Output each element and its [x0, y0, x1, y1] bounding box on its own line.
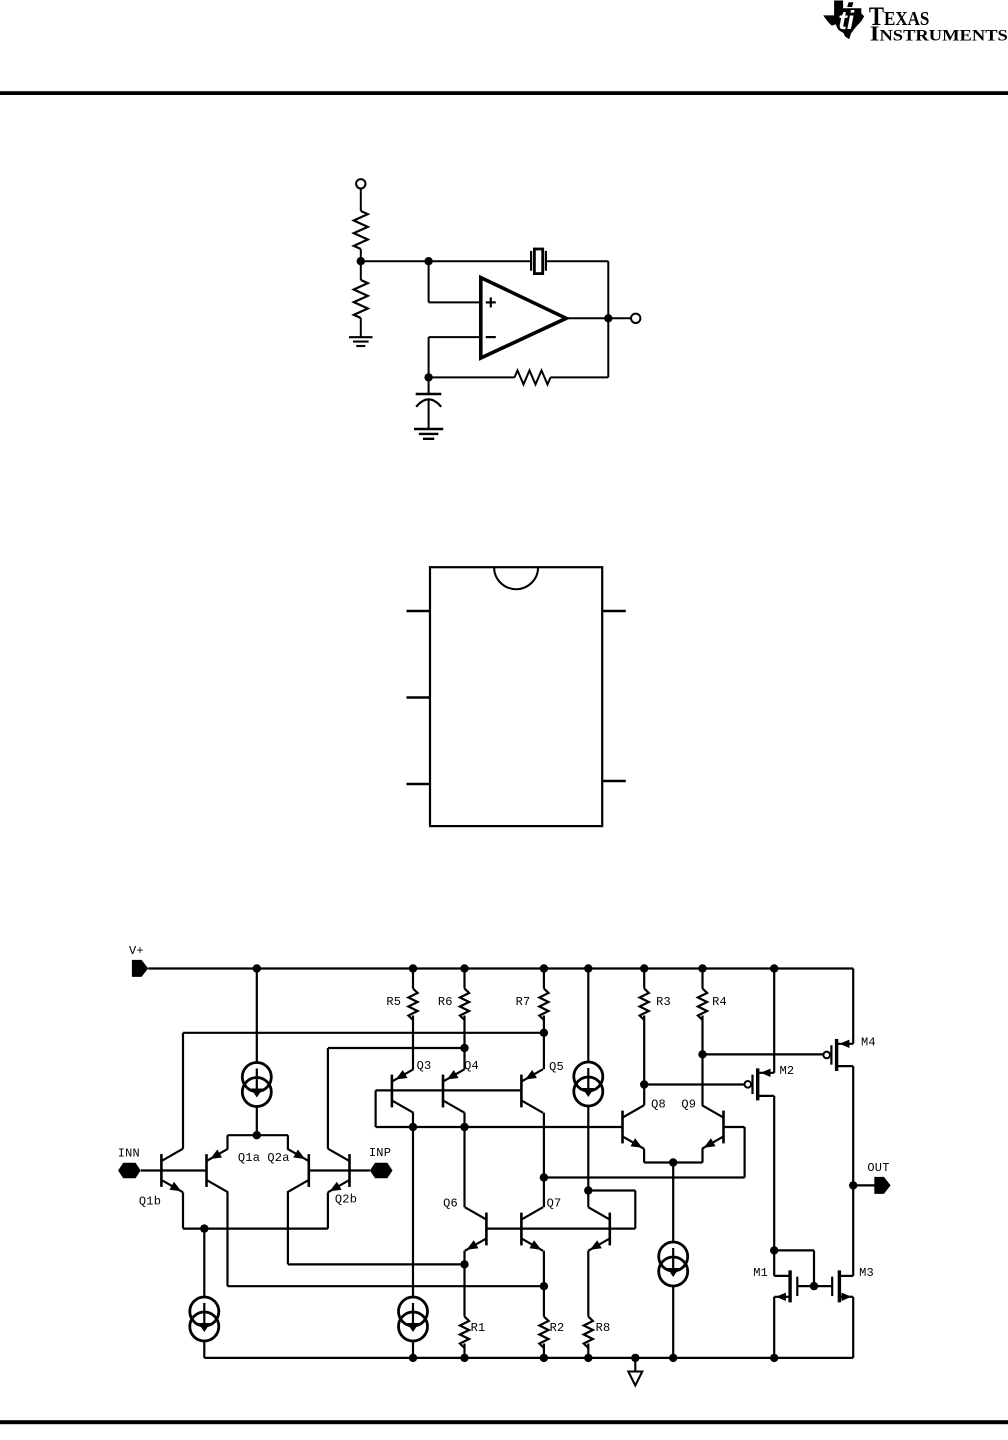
- svg-text:R3: R3: [656, 995, 671, 1009]
- svg-text:Q3: Q3: [417, 1059, 432, 1073]
- svg-text:R1: R1: [471, 1321, 486, 1335]
- svg-text:V+: V+: [129, 944, 144, 958]
- svg-text:Q1b: Q1b: [139, 1195, 161, 1209]
- svg-text:Q2b: Q2b: [335, 1193, 357, 1207]
- svg-text:Q2a: Q2a: [267, 1151, 289, 1165]
- svg-text:R5: R5: [386, 995, 401, 1009]
- svg-text:M4: M4: [861, 1035, 876, 1049]
- svg-text:R8: R8: [596, 1321, 611, 1335]
- svg-text:Q9: Q9: [681, 1098, 696, 1112]
- svg-text:R4: R4: [712, 995, 727, 1009]
- svg-text:Q4: Q4: [464, 1059, 479, 1073]
- svg-text:M2: M2: [779, 1064, 794, 1078]
- svg-text:Q8: Q8: [651, 1098, 666, 1112]
- svg-text:INP: INP: [369, 1146, 391, 1160]
- svg-text:R2: R2: [550, 1321, 565, 1335]
- svg-text:Q5: Q5: [549, 1060, 564, 1074]
- svg-text:ti: ti: [838, 5, 855, 35]
- svg-text:M3: M3: [859, 1266, 874, 1280]
- svg-text:OUT: OUT: [867, 1161, 889, 1175]
- svg-text:M1: M1: [753, 1266, 768, 1280]
- svg-text:R6: R6: [438, 995, 453, 1009]
- svg-text:R7: R7: [516, 995, 531, 1009]
- svg-text:Q6: Q6: [443, 1197, 458, 1211]
- svg-text:INN: INN: [118, 1146, 140, 1160]
- svg-text:Q7: Q7: [547, 1197, 562, 1211]
- svg-text:Q1a: Q1a: [238, 1151, 260, 1165]
